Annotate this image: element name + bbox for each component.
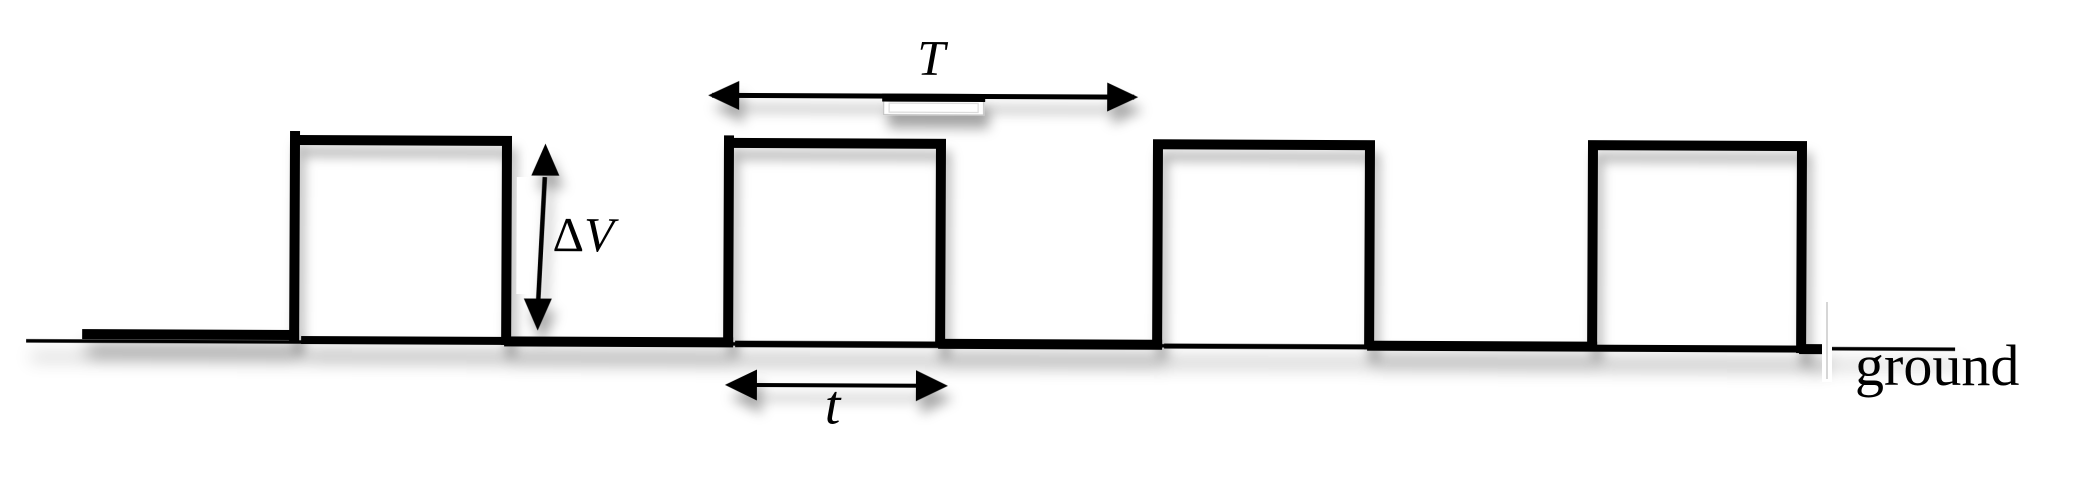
wire low segment 1 [504,336,733,347]
pulse 3 top [1153,139,1375,150]
wire under pulse 2 [735,341,938,348]
pulse 1 falling edge [501,136,512,345]
wire low segment 0 [82,329,296,340]
pulse 2 top [724,138,946,149]
dimension arrow deltaV (amplitude) [524,144,560,331]
pulse 2 falling edge [935,139,946,347]
svg-text:ground: ground [1855,333,2019,398]
svg-text:T: T [917,30,948,86]
pulse 3 rising edge [1152,139,1163,345]
ground line (thin baseline) [26,341,1955,349]
svg-text:t: t [825,374,842,436]
wire under pulse 3 [1164,344,1367,350]
pulse 3 falling edge [1364,141,1375,349]
pulse 2 rising edge [723,135,734,343]
wire under pulse 4 [1597,345,1799,353]
faint vertical tick [1826,302,1828,379]
pulse 4 rising edge [1587,141,1598,347]
dimension arrow t (pulse width) [725,369,948,401]
label box behind deltaV arrow [516,177,575,294]
label box on T arrow [884,96,984,115]
white gap artifact on baseline [1822,296,1832,382]
wire low segment 3 [1367,346,1597,347]
pulse 4 falling edge [1796,142,1807,353]
wire low segment 4 [1799,344,1824,354]
svg-text:ΔV: ΔV [552,207,619,262]
wire under pulse 1 [301,336,504,345]
pulse 1 rising edge [289,131,300,342]
pulse 1 top [290,135,512,146]
wire low segment 2 [938,339,1162,350]
pulse 4 top [1588,140,1807,151]
dimension arrow T (period) [708,81,1138,112]
wire T arrow over box [882,94,985,102]
